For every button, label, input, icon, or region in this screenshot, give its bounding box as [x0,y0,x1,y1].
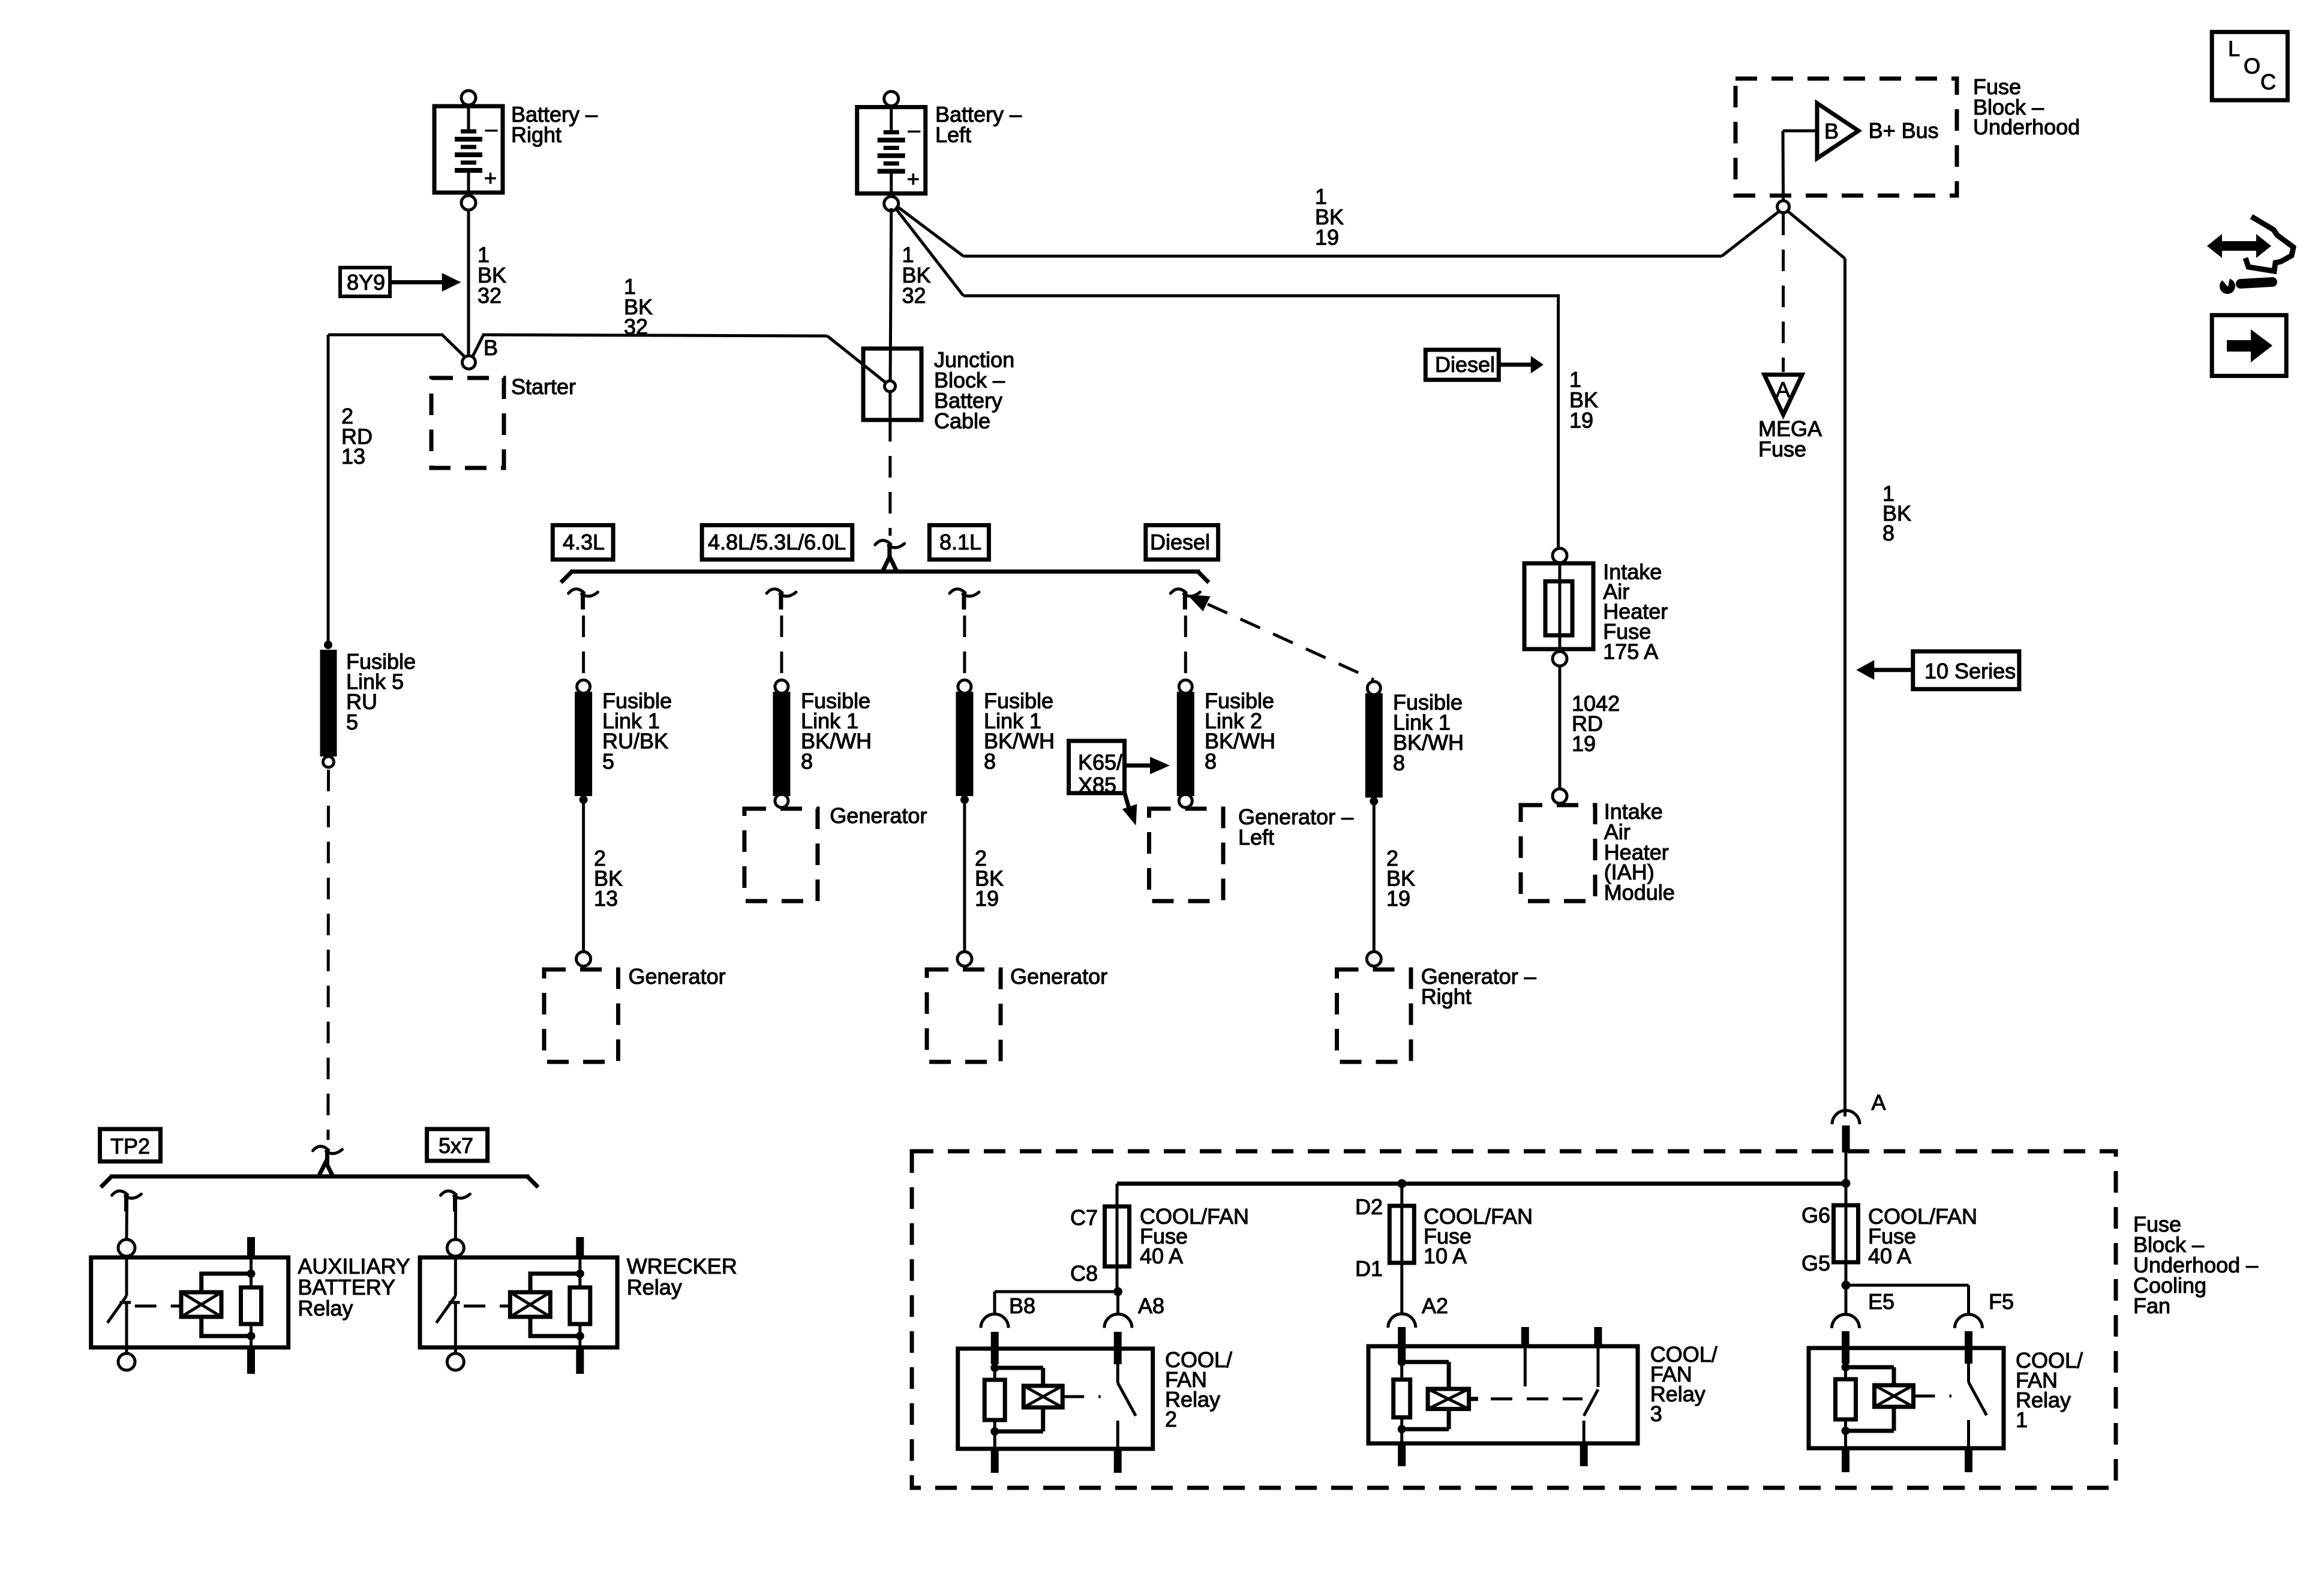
svg-text:2: 2 [1165,1407,1177,1431]
svg-text:3: 3 [1650,1401,1662,1426]
svg-text:5x7: 5x7 [439,1133,473,1158]
svg-text:32: 32 [478,283,502,308]
svg-text:Diesel: Diesel [1435,352,1495,377]
svg-text:D2: D2 [1355,1194,1383,1219]
svg-text:Cable: Cable [934,409,990,433]
svg-text:8: 8 [1205,749,1217,773]
svg-text:Right: Right [511,122,562,147]
svg-text:F5: F5 [1989,1289,2014,1314]
svg-text:Relay: Relay [298,1296,353,1320]
svg-text:G5: G5 [1801,1251,1830,1275]
svg-text:8.1L: 8.1L [939,530,981,554]
svg-text:Left: Left [935,122,971,147]
svg-text:A: A [1776,377,1790,402]
svg-text:19: 19 [1386,886,1410,911]
svg-text:B+ Bus: B+ Bus [1869,118,1939,143]
svg-text:Generator: Generator [1010,964,1107,989]
svg-text:Diesel: Diesel [1150,530,1210,554]
svg-text:K65/: K65/ [1078,750,1122,775]
svg-text:Right: Right [1421,984,1472,1009]
svg-text:C7: C7 [1070,1205,1098,1230]
svg-text:Generator: Generator [830,803,927,828]
svg-text:Underhood: Underhood [1973,115,2080,139]
svg-text:L: L [2228,36,2240,61]
svg-text:A8: A8 [1138,1293,1164,1318]
svg-text:B: B [484,335,498,360]
svg-text:40 A: 40 A [1140,1244,1183,1268]
svg-text:8: 8 [1882,521,1894,545]
svg-text:32: 32 [902,283,926,308]
svg-text:Starter: Starter [511,374,576,399]
svg-text:32: 32 [624,314,648,339]
svg-text:Left: Left [1238,825,1274,849]
svg-text:19: 19 [975,886,999,911]
svg-text:Fuse: Fuse [1758,437,1806,461]
svg-text:8Y9: 8Y9 [347,270,385,295]
svg-text:19: 19 [1315,225,1339,250]
svg-text:1: 1 [2016,1407,2028,1432]
svg-text:8: 8 [1393,751,1405,775]
svg-text:40 A: 40 A [1868,1244,1911,1268]
svg-text:8: 8 [801,749,813,773]
svg-text:5: 5 [602,749,614,773]
svg-text:G6: G6 [1801,1203,1830,1227]
svg-text:10 A: 10 A [1424,1244,1467,1268]
svg-text:O: O [2244,53,2260,78]
svg-text:E5: E5 [1868,1289,1894,1314]
svg-text:A2: A2 [1422,1293,1448,1318]
svg-text:B8: B8 [1009,1293,1035,1318]
svg-text:13: 13 [594,886,618,911]
svg-text:5: 5 [346,710,358,734]
svg-text:C8: C8 [1070,1261,1098,1286]
svg-text:19: 19 [1569,408,1593,433]
svg-text:13: 13 [341,444,365,469]
svg-text:Module: Module [1604,880,1675,905]
svg-text:19: 19 [1572,731,1596,756]
svg-text:Relay: Relay [627,1275,682,1299]
svg-text:4.8L/5.3L/6.0L: 4.8L/5.3L/6.0L [708,530,846,554]
svg-text:4.3L: 4.3L [563,530,605,554]
svg-text:X85: X85 [1078,773,1116,797]
svg-text:B: B [1824,119,1839,143]
svg-text:8: 8 [984,749,996,773]
svg-text:Fan: Fan [2133,1293,2170,1318]
svg-text:Generator: Generator [629,964,726,989]
svg-text:10 Series: 10 Series [1924,659,2016,683]
svg-text:A: A [1872,1090,1886,1115]
svg-text:D1: D1 [1355,1256,1383,1281]
svg-text:175 A: 175 A [1603,640,1658,664]
svg-text:TP2: TP2 [110,1134,150,1158]
svg-text:C: C [2260,70,2276,94]
